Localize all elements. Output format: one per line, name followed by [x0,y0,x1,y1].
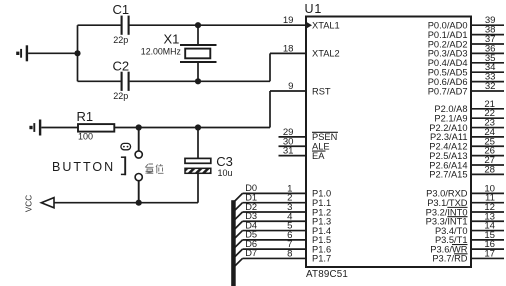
svg-text:100: 100 [78,132,93,142]
svg-text:VCC: VCC [24,195,33,212]
wire G2 to R1 [41,127,78,129]
svg-text:19: 19 [283,15,294,26]
IC U1 AT89C51 body [306,17,471,268]
wire D4 from bus to pin 5 [243,230,307,232]
pin number 2 [287,193,292,204]
resistor R1 label [77,109,94,124]
node junction button/VCC [136,200,142,206]
pin number 26 [484,146,495,157]
C3 value 10u [218,168,233,178]
svg-text:XTAL1: XTAL1 [312,21,340,31]
pin number 39 [485,15,496,26]
wire pin 39 stub right [471,24,504,26]
pin number 35 [485,53,496,64]
svg-text:RST: RST [312,86,331,96]
wire XTAL2 riser [269,53,271,81]
pin number 27 [484,155,495,166]
svg-text:U1: U1 [305,2,323,16]
pin name P0.6/AD6 [428,77,468,87]
svg-text:31: 31 [283,146,294,157]
bus entry diagonal D0 [234,193,242,201]
wire crystal bottom lead [197,62,199,81]
U1 value label AT89C51 [306,269,348,280]
pin number 36 [485,43,496,54]
pin number 38 [485,25,496,36]
pin number 3 [287,202,292,213]
pin number 7 [287,239,292,250]
net label D1 [245,192,257,202]
svg-text:D7: D7 [245,248,257,258]
pin name P0.2/AD2 [428,39,468,49]
svg-text:X1: X1 [164,32,180,47]
pin name P1.3 [312,217,331,227]
wire pin 16 stub right [471,248,504,250]
svg-text:9: 9 [288,81,293,92]
svg-text:22p: 22p [113,35,128,45]
net label D0 [245,183,257,193]
wire C2 right to XTAL2 riser [130,80,270,82]
bus entry diagonal D7 [234,258,242,266]
wire button top lead [138,128,140,152]
pin number 10 [484,183,495,194]
pin number 9 [288,81,293,92]
wire pin 10 stub right [471,192,504,194]
capacitor C2 label [113,58,130,73]
svg-text:32: 32 [485,81,496,92]
button bottom contact [135,174,142,181]
pin number 13 [484,211,495,222]
wire pin 32 stub right [471,90,504,92]
power VCC arrow [41,198,54,208]
BUTTON label [52,160,115,174]
pin number 23 [484,118,495,129]
pin name P1.7 [312,254,331,264]
wire pin 14 stub right [471,230,504,232]
wire VCC rail [54,202,198,204]
svg-text:10u: 10u [218,168,233,178]
pin number 34 [485,62,496,73]
wire C3 top lead [197,128,199,159]
pin name P2.7/A15 [429,170,467,180]
pin number 37 [485,34,496,45]
resistor R1 body [78,124,114,132]
pin number 28 [484,164,495,175]
pin number 8 [287,248,292,259]
pin number 33 [485,72,496,83]
wire pin 9 stub [270,90,306,92]
svg-text:P2.7/A15: P2.7/A15 [429,170,467,180]
pin number 19 [283,15,294,26]
wire pin 25 stub right [471,145,504,147]
svg-text:BUTTON: BUTTON [52,160,115,174]
crystal X1 top plate [180,44,217,46]
wire pin 28 stub right [471,173,504,175]
svg-text:C1: C1 [113,2,130,17]
svg-text:P3.7/RD: P3.7/RD [432,254,467,264]
svg-text:P1.7: P1.7 [312,254,331,264]
pin number 17 [484,248,495,259]
pin name P3.7/RD [432,254,467,264]
wire pin 21 stub right [471,108,504,110]
bus entry diagonal D5 [234,240,242,248]
U1 reference label [305,2,323,16]
wire D7 from bus to pin 8 [243,257,307,259]
wire pin 37 stub right [471,43,504,45]
capacitor C3 label [216,154,233,169]
wire pin 34 stub right [471,71,504,73]
pin name P3.4/T0 [435,226,468,236]
capacitor C1 plates [122,16,129,35]
pin name P1.4 [312,226,331,236]
svg-text:28: 28 [484,164,495,175]
net label D4 [245,220,257,230]
wire D2 from bus to pin 3 [243,211,307,213]
wire C1 left [78,24,121,26]
wire XTAL1 net from C1 to pin 19 [130,24,307,26]
pin name P3.6/WR [430,244,467,254]
button bridge bar [121,156,126,175]
wire pin 27 stub right [471,164,504,166]
pin name XTAL2 [312,49,340,59]
capacitor C3 top plate [185,158,211,163]
pin name P3.5/T1 [435,235,468,245]
C1 value 22p [113,35,128,45]
wire pin 18 stub [270,52,306,54]
wire G1 to C1/C2 junction [28,52,77,54]
button top contact [135,151,142,158]
net label D5 [245,230,257,240]
bus bar D0-D7 [231,200,236,286]
pin number 22 [484,108,495,119]
wire D5 from bus to pin 6 [243,239,307,241]
pin name P0.3/AD3 [428,49,468,59]
crystal X1 body [185,49,210,59]
wire pin 11 stub right [471,202,504,204]
svg-text:C3: C3 [216,154,233,169]
crystal X1 label [164,32,180,47]
node junction R1/button [136,124,142,130]
pin number 12 [484,202,495,213]
ground symbol G2 (R1) [29,120,40,136]
pin name P2.1/A9 [434,113,467,123]
bus entry diagonal D1 [234,203,242,211]
pin number 21 [484,99,495,110]
net label D6 [245,239,257,249]
net label D2 [245,202,257,212]
pin name P1.5 [312,235,331,245]
node junction C1/C2 ground [74,50,80,56]
pin name P1.1 [312,198,331,208]
bus entry diagonal D2 [234,212,242,220]
svg-text:XTAL2: XTAL2 [312,49,340,59]
pin name P2.4/A12 [429,142,467,152]
pin name P3.1/TXD [427,198,468,208]
svg-text:8: 8 [287,248,292,259]
wire button bottom lead [138,181,140,203]
pin name P2.6/A14 [429,160,467,170]
pin number 24 [484,127,495,138]
bus entry diagonal D3 [234,221,242,229]
pin name P1.2 [312,207,331,217]
pin number 32 [485,81,496,92]
C2 value 22p [113,91,128,101]
annotation fu-wei (reset) [145,164,163,173]
pin number 16 [484,239,495,250]
wire pin 23 stub right [471,127,504,129]
pin number 6 [287,230,292,241]
wire pin 24 stub right [471,136,504,138]
pin name P3.3/INT1 [426,217,468,227]
wire pin 15 stub right [471,239,504,241]
pin name P2.2/A10 [429,123,467,133]
pin number 11 [485,193,495,204]
pin name P0.7/AD7 [428,86,468,96]
pin name P0.4/AD4 [428,58,468,68]
pin name RST [312,86,331,96]
pin name P0.5/AD5 [428,68,468,78]
wire RST riser [269,91,271,128]
pin name XTAL1 [312,21,340,31]
svg-text:R1: R1 [77,109,94,124]
bus entry diagonal D4 [234,231,242,239]
wire crystal top lead [197,25,199,45]
pin 31 EA stub and label [279,146,326,161]
wire vertical C1-C2 left [77,25,79,81]
svg-text:AT89C51: AT89C51 [306,269,348,280]
svg-text:EA: EA [312,151,325,161]
pin name P1.6 [312,244,331,254]
wire D3 from bus to pin 4 [243,220,307,222]
wire pin 36 stub right [471,52,504,54]
pin number 25 [484,136,495,147]
net label D3 [245,211,257,221]
wire pin 13 stub right [471,220,504,222]
node junction crystal bottom [195,78,201,84]
wire C3 bottom lead [197,173,199,202]
wire C2 left [78,80,121,82]
ground symbol G1 (crystal caps) [16,45,27,61]
button actuator cap icon [121,143,131,149]
capacitor C1 label [113,2,130,17]
svg-text:12.00MHz: 12.00MHz [141,47,181,57]
pin number 1 [287,183,292,194]
pin name P0.1/AD1 [428,30,468,40]
pin number 14 [484,221,495,232]
wire pin 22 stub right [471,117,504,119]
node junction crystal top [195,22,201,28]
X1 value 12.00MHz [141,47,181,57]
wire pin 17 stub right [471,257,504,259]
svg-text:22p: 22p [113,91,128,101]
pin name P3.2/INT0 [426,207,468,217]
pin name P2.0/A8 [434,104,467,114]
pin name P2.5/A13 [429,151,467,161]
wire pin 33 stub right [471,81,504,83]
pin name P1.0 [312,189,331,199]
wire pin 26 stub right [471,155,504,157]
wire pin 12 stub right [471,211,504,213]
capacitor C3 bottom plate (hatched) [185,168,211,173]
node junction R1/C3 [195,124,201,130]
svg-text:18: 18 [283,43,294,54]
XTAL1 clock arrowhead [307,22,312,28]
pin number 15 [484,230,495,241]
capacitor C2 plates [122,72,129,91]
R1 value 100 [78,132,93,142]
svg-text:P0.7/AD7: P0.7/AD7 [428,86,468,96]
pin name P2.3/A11 [430,132,468,142]
wire D6 from bus to pin 7 [243,248,307,250]
pin 29 PSEN stub and label [279,127,338,142]
pin 30 ALE stub and label [279,136,330,151]
net label D7 [245,248,257,258]
wire D1 from bus to pin 2 [243,202,307,204]
wire R1 to RST riser [114,127,270,129]
svg-text:C2: C2 [113,58,130,73]
wire pin 35 stub right [471,62,504,64]
crystal X1 bottom plate [180,61,217,63]
pin number 18 [283,43,294,54]
pin number 5 [287,221,292,232]
bus entry diagonal D6 [234,249,242,257]
pin name P3.0/RXD [426,189,468,199]
svg-text:17: 17 [484,248,495,259]
pin number 4 [287,211,293,222]
wire D0 from bus to pin 1 [243,192,307,194]
pin name P0.0/AD0 [428,21,468,31]
wire pin 38 stub right [471,34,504,36]
